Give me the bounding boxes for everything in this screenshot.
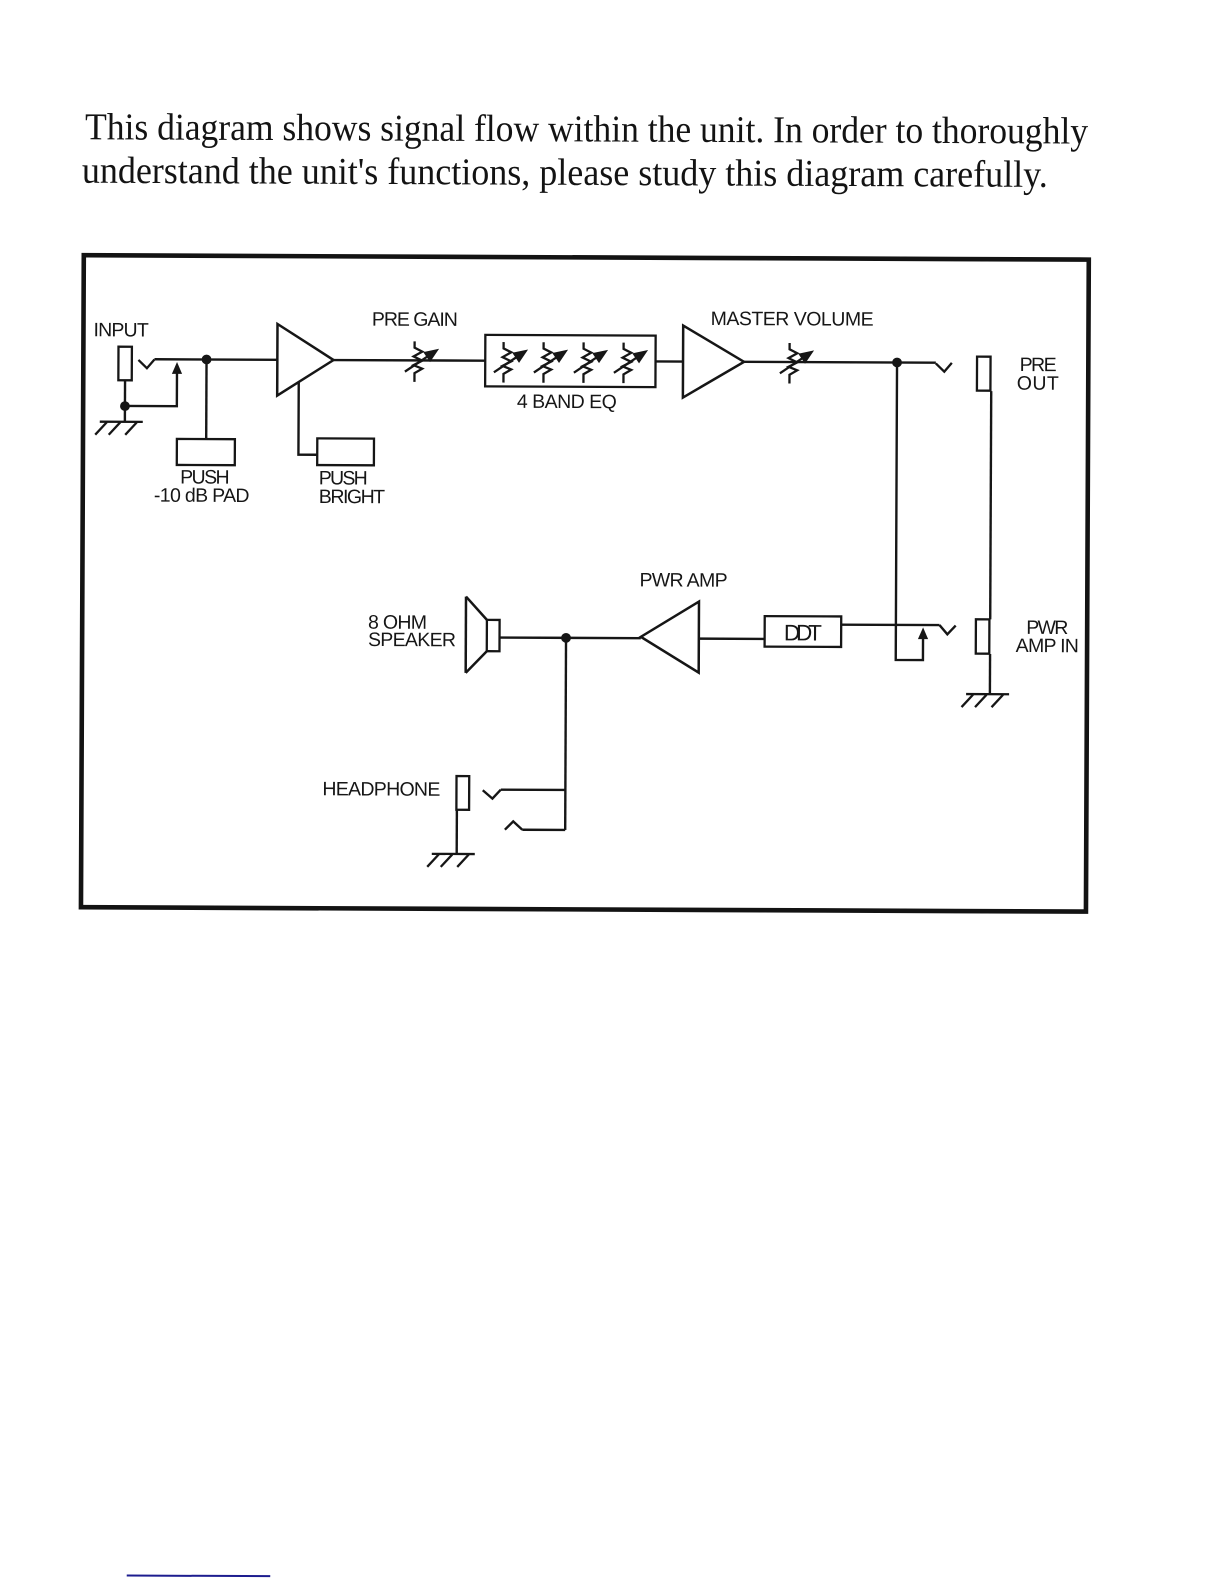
node input ground junction (120, 401, 130, 411)
svg-text:-10 dB PAD: -10 dB PAD (154, 485, 250, 507)
push -10dB pad box (177, 439, 235, 465)
svg-text:OUT: OUT (1017, 373, 1059, 395)
headphone jack tip switch (483, 790, 501, 799)
wire pad branch (125, 370, 177, 406)
wire jack sleeve to ground node (124, 380, 127, 421)
pre out jack J2 (977, 357, 991, 391)
wire speaker to pwr amp (500, 636, 641, 639)
op-amp power amp (641, 601, 699, 672)
pot master volume (780, 343, 814, 384)
diagram frame (81, 255, 1089, 911)
svg-text:4 BAND EQ: 4 BAND EQ (517, 391, 617, 413)
node pre out junction (892, 358, 902, 368)
4 band EQ box (485, 335, 656, 387)
wire EQ to master volume amp (656, 360, 683, 363)
node input junction (202, 355, 212, 365)
input jack tip switch (138, 359, 154, 368)
pot EQ band 4 (614, 343, 648, 384)
wire normal from junction (896, 362, 924, 660)
svg-text:MASTER VOLUME: MASTER VOLUME (711, 308, 874, 331)
wire headphone ring (522, 829, 565, 832)
svg-text:HEADPHONE: HEADPHONE (322, 778, 440, 801)
wire pwr amp to DDT (699, 637, 765, 640)
wire headphone sleeve to ground (455, 810, 458, 854)
arrowhead normal contact (918, 627, 928, 639)
arrowhead pad contact (172, 362, 182, 374)
svg-text:This diagram shows signal flow: This diagram shows signal flow within th… (85, 106, 1088, 152)
wire preamp to EQ (334, 359, 486, 362)
svg-text:INPUT: INPUT (94, 319, 149, 341)
pot EQ band 1 (494, 342, 528, 383)
svg-text:PWR AMP: PWR AMP (639, 569, 727, 591)
ground headphone (427, 854, 475, 867)
wire junction to headphone (564, 638, 567, 830)
wire master volume to pre out (744, 361, 936, 364)
svg-text:understand the unit's function: understand the unit's functions, please … (82, 150, 1048, 196)
op-amp preamp (277, 324, 334, 396)
pot EQ band 2 (534, 342, 568, 383)
wire sleeve to ground (989, 654, 992, 694)
svg-text:SPEAKER: SPEAKER (368, 629, 456, 651)
wire headphone tip (501, 788, 566, 791)
wire junction to pad box (205, 359, 208, 439)
DDT box (765, 616, 842, 647)
headphone jack J4 (456, 776, 469, 810)
wire input to preamp (154, 358, 277, 361)
pwr amp in jack tip switch (939, 625, 955, 634)
wire jack sleeve bus (989, 391, 992, 619)
pot pre gain (405, 341, 439, 382)
ground input (95, 422, 143, 435)
wire bright branch (298, 382, 317, 454)
svg-text:DDT: DDT (784, 620, 822, 645)
input jack J1 (118, 347, 132, 381)
svg-text:BRIGHT: BRIGHT (319, 486, 385, 508)
svg-text:PRE GAIN: PRE GAIN (372, 309, 458, 331)
op-amp master volume (683, 326, 744, 398)
svg-text:AMP IN: AMP IN (1016, 635, 1079, 657)
node speaker junction (561, 633, 571, 643)
wire DDT to pwr amp in switch (841, 623, 939, 626)
pwr amp in jack J3 (976, 619, 990, 653)
pot EQ band 3 (574, 342, 608, 383)
ground pwr amp in (962, 694, 1010, 707)
pre out jack tip switch (936, 363, 952, 372)
speaker LS1 (487, 620, 500, 651)
headphone jack ring switch (505, 821, 522, 829)
footer blue rule (127, 1575, 270, 1578)
push bright box (317, 438, 374, 465)
